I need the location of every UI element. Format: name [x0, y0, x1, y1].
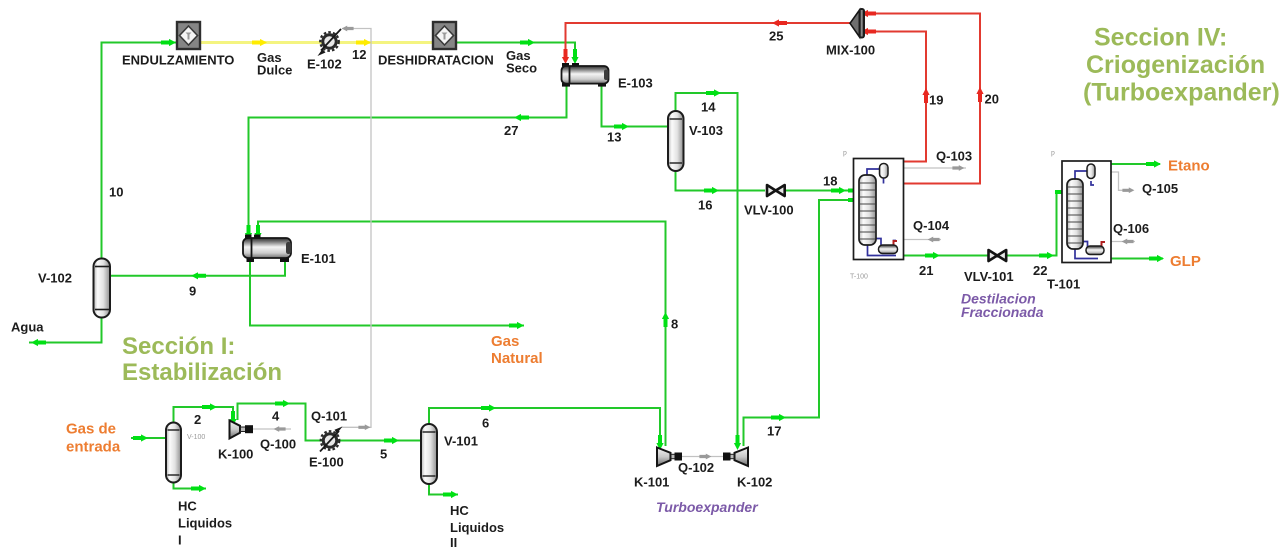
svg-text:entrada: entrada	[66, 439, 121, 456]
wire stream 27 : E-103 bottom left, down, left, down into E-101	[249, 85, 567, 236]
svg-text:E-103: E-103	[618, 76, 653, 91]
svg-text:I: I	[178, 533, 182, 547]
column T-100 subflowsheet	[854, 159, 904, 260]
node arrow stream 27	[514, 114, 529, 121]
svg-text:Q-106: Q-106	[1113, 221, 1149, 236]
node arrow red into MIX-100 upper	[861, 10, 876, 17]
svg-text:Gas de: Gas de	[66, 421, 116, 438]
wire Agua : V-102 bottom down then left	[29, 318, 102, 343]
svg-text:Etano: Etano	[1168, 158, 1210, 175]
node arrow red up stream 19	[922, 88, 929, 103]
node arrow gray Q-102	[699, 454, 711, 460]
heat exchanger E-100	[320, 427, 343, 452]
svg-text:Seccion IV:: Seccion IV:	[1094, 24, 1227, 52]
svg-text:Sección I:: Sección I:	[122, 333, 235, 360]
node arrow stream 22 into T-101	[1055, 188, 1070, 195]
svg-text:Agua: Agua	[11, 320, 44, 335]
wire stream 19 red : condenser to MIX-100 lower inlet	[864, 32, 926, 162]
wire stream 17 : K-102 outlet up right up to T-100 second feed	[744, 200, 860, 446]
svg-text:4: 4	[272, 409, 280, 424]
svg-text:Estabilización: Estabilización	[122, 359, 282, 386]
node arrow stream 27 down into E-101	[245, 225, 252, 240]
tray column T-100	[859, 175, 876, 245]
svg-text:Q-101: Q-101	[311, 409, 347, 424]
svg-text:V-102: V-102	[38, 271, 72, 286]
svg-text:Liquidos: Liquidos	[450, 520, 504, 535]
wire Gas Dulce yellow : ENDULZAMIENTO to E-102	[200, 41, 322, 44]
svg-text:DESHIDRATACION: DESHIDRATACION	[378, 53, 494, 68]
svg-text:6: 6	[482, 416, 489, 431]
reboiler T-101	[1086, 246, 1104, 255]
node arrow stream 17 into T-100	[848, 196, 863, 203]
node arrow stream 18 into T-100	[831, 187, 846, 194]
svg-text:Gas: Gas	[491, 333, 519, 350]
svg-text:13: 13	[607, 130, 621, 145]
wire energy Q-102 gray	[680, 456, 725, 458]
svg-text:V-101: V-101	[444, 434, 478, 449]
svg-text:5: 5	[380, 447, 387, 462]
wire energy Q-103 gray	[888, 167, 966, 169]
node arrow stream 14 into K-102	[734, 435, 741, 450]
wire energy Q-100 gray	[253, 428, 291, 430]
svg-text:Turboexpander: Turboexpander	[656, 499, 759, 515]
node arrow gray Q-103	[952, 165, 964, 171]
mixer MIX-100	[850, 8, 865, 39]
wire stream 9 : E-101 bottom to V-102	[110, 261, 285, 276]
condenser T-100	[880, 164, 889, 179]
svg-text:2: 2	[194, 412, 201, 427]
node arrow gray Q-101 at E-102	[342, 26, 354, 32]
wire stream 2 : V-100 top up right down to K-100	[174, 407, 234, 423]
svg-text:HC: HC	[450, 503, 469, 518]
wire HC Liquidos II : V-101 bottom	[429, 484, 458, 495]
node arrow Etano	[1146, 160, 1161, 167]
wire Etano : T-101 condenser out right	[1092, 163, 1160, 165]
wire stream 10 : V-102 top up and right to ENDULZAMIENTO	[102, 43, 178, 260]
node arrow stream 2 into K-100	[229, 411, 236, 426]
node arrow stream 18 feed tip	[848, 187, 863, 194]
node arrow green down into E-103	[571, 49, 578, 64]
wire energy Q-106 gray	[1107, 241, 1135, 243]
node yellow arrow Gas Dulce	[252, 39, 267, 46]
svg-text:Natural: Natural	[491, 350, 543, 367]
wire stream 8 : K-101 outlet up then left to E-101	[258, 222, 666, 447]
node arrow stream 14	[706, 89, 721, 96]
svg-text:18: 18	[823, 174, 837, 189]
svg-text:V-100: V-100	[187, 434, 205, 441]
svg-text:K-102: K-102	[737, 475, 772, 490]
node arrow stream 8 down into E-101	[254, 225, 261, 240]
svg-text:E-101: E-101	[301, 251, 336, 266]
svg-text:Fraccionada: Fraccionada	[961, 304, 1044, 320]
svg-text:ENDULZAMIENTO: ENDULZAMIENTO	[122, 53, 234, 68]
svg-text:17: 17	[767, 424, 781, 439]
block DESHIDRATACION	[433, 22, 456, 49]
svg-text:II: II	[450, 535, 457, 547]
wire stream 22 : VLV-101 right up into T-101	[1006, 192, 1066, 256]
node arrow gray Q-100	[274, 426, 286, 432]
node arrow Gas Seco	[520, 39, 535, 46]
svg-text:Criogenización: Criogenización	[1086, 51, 1265, 79]
block ENDULZAMIENTO	[177, 22, 200, 49]
node arrow stream 13	[614, 123, 629, 130]
svg-text:VLV-100: VLV-100	[744, 203, 794, 218]
svg-text:Dulce: Dulce	[257, 63, 292, 78]
node arrow GLP	[1149, 255, 1164, 262]
node arrow stream 5	[384, 437, 399, 444]
svg-text:14: 14	[701, 100, 716, 115]
svg-text:K-100: K-100	[218, 447, 253, 462]
svg-text:19: 19	[929, 93, 943, 108]
wire energy Q-105 gray	[1095, 172, 1132, 190]
tray column T-101	[1067, 179, 1083, 249]
svg-text:Q-100: Q-100	[260, 437, 296, 452]
svg-text:25: 25	[769, 29, 783, 44]
svg-text:Seco: Seco	[506, 61, 537, 76]
wire stream 13 : E-103 bottom right down then right to V-103	[602, 85, 669, 127]
node arrow gray Q-101 at E-100	[358, 424, 370, 430]
wire stream 21 : T-100 bottoms to VLV-101	[896, 255, 988, 257]
shell-tube exchanger E-101	[243, 235, 291, 263]
node arrow stream 21	[925, 252, 940, 259]
wire stream 18 : VLV-100 to T-100 feed	[786, 190, 859, 192]
node arrow Gas Natural	[509, 322, 524, 329]
svg-text:10: 10	[109, 185, 123, 200]
node arrow stream 17 horizontal	[771, 414, 786, 421]
node arrow gray Q-104	[928, 237, 940, 243]
node arrow stream 6	[481, 404, 496, 411]
vessel V-102	[94, 259, 111, 318]
wire stream 12 yellow : E-102 to DESHIDRATACION	[337, 41, 433, 44]
wire GLP : T-101 bottoms right	[1098, 258, 1163, 260]
svg-text:21: 21	[919, 263, 933, 278]
svg-text:T-101: T-101	[1047, 277, 1080, 292]
svg-text:27: 27	[504, 123, 518, 138]
node arrow stream 16	[704, 187, 719, 194]
compressor K-100	[230, 421, 254, 439]
node arrow red up stream 20	[976, 87, 983, 102]
node arrow gray Q-105	[1122, 187, 1134, 193]
node arrow HC Liquidos II	[443, 491, 458, 498]
wire Gas Natural : E-101 bottom down then right	[250, 261, 524, 326]
svg-text:E-100: E-100	[309, 455, 344, 470]
navy piping T-100	[867, 164, 896, 256]
node arrow stream 9	[191, 272, 206, 279]
reboiler red stub T-100	[894, 241, 898, 246]
svg-text:GLP: GLP	[1170, 253, 1201, 270]
node arrow gray Q-106	[1122, 239, 1134, 245]
node arrow stream 6 into K-101	[656, 435, 663, 450]
wire stream 6 : V-101 top up right down to K-101	[429, 408, 660, 446]
svg-text:22: 22	[1033, 263, 1047, 278]
node arrow Agua	[31, 339, 46, 346]
svg-text:E-102: E-102	[307, 57, 342, 72]
vessel V-103	[668, 111, 684, 171]
wire energy Q-101 gray : E-102 down to E-100	[341, 29, 371, 428]
node arrow red stream 25	[772, 19, 787, 26]
node arrow HC Liquidos I	[191, 485, 206, 492]
wire stream 16 : V-103 bottom down then right to VLV-100	[676, 171, 766, 191]
compressor K-102	[723, 448, 748, 467]
reboiler red stub T-101	[1102, 242, 1106, 248]
condenser T-101	[1087, 164, 1095, 179]
wire stream 4 : K-100 up right down to E-100	[238, 404, 323, 441]
node arrow into ENDULZAMIENTO	[161, 39, 176, 46]
node arrow red down into E-103	[562, 49, 569, 64]
wire stream 25 red : MIX-100 outlet left then down into E-103	[566, 23, 851, 60]
svg-text:9: 9	[189, 284, 196, 299]
svg-text:Q-105: Q-105	[1142, 181, 1178, 196]
wire stream 14 : V-103 top up right and down to K-102	[676, 93, 738, 446]
svg-text:Liquidos: Liquidos	[178, 516, 232, 531]
wire HC Liquidos I : V-100 bottom	[174, 482, 207, 489]
wire Gas Seco : DESHIDRATACION right then down into E-103	[456, 43, 575, 61]
wire stream 5 : E-100 to V-101	[338, 440, 420, 442]
svg-text:12: 12	[352, 47, 366, 62]
shell-tube exchanger E-103	[562, 63, 609, 87]
wire stream 20 red : condenser to MIX-100 upper inlet	[864, 14, 980, 184]
column T-101 subflowsheet	[1062, 161, 1111, 263]
node arrow stream 2	[202, 403, 217, 410]
svg-text:V-103: V-103	[689, 123, 723, 138]
svg-text:(Turboexpander): (Turboexpander)	[1083, 79, 1280, 107]
svg-text:ƿ: ƿ	[843, 150, 847, 157]
svg-text:20: 20	[985, 92, 999, 107]
valve VLV-101	[989, 250, 1007, 261]
node arrow stream 4	[275, 400, 290, 407]
node arrow red into MIX-100 lower	[861, 28, 876, 35]
svg-text:K-101: K-101	[634, 475, 669, 490]
svg-text:8: 8	[671, 317, 678, 332]
svg-text:Q-103: Q-103	[936, 149, 972, 164]
svg-text:VLV-101: VLV-101	[964, 269, 1014, 284]
valve VLV-100	[767, 185, 785, 196]
vessel V-101	[421, 424, 437, 484]
vessel V-100	[166, 423, 181, 483]
reboiler T-100	[879, 245, 898, 254]
node arrow stream 22	[1039, 252, 1054, 259]
expander K-101	[657, 448, 682, 467]
heat exchanger E-102	[318, 29, 342, 56]
wire Gas de entrada : into V-100	[131, 437, 166, 439]
navy piping T-101	[1075, 164, 1102, 259]
svg-text:Q-102: Q-102	[678, 460, 714, 475]
svg-text:T-100: T-100	[850, 274, 868, 281]
node yellow arrow stream 12	[356, 39, 371, 46]
node arrow Gas de entrada	[133, 434, 148, 441]
svg-text:HC: HC	[178, 499, 197, 514]
svg-text:Q-104: Q-104	[913, 218, 950, 233]
svg-text:ƿ: ƿ	[1051, 150, 1055, 157]
svg-text:MIX-100: MIX-100	[826, 43, 875, 58]
wire energy Q-104 gray	[899, 239, 941, 241]
node arrow green up stream 8	[662, 312, 669, 327]
svg-text:16: 16	[698, 198, 712, 213]
